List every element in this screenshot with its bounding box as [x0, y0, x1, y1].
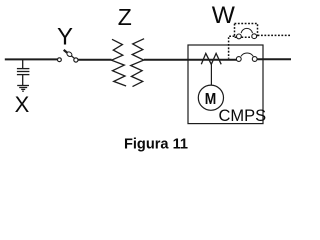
- relay device terminal 1: [237, 34, 242, 39]
- battery/source X : stub from wire: [22, 60, 24, 68]
- ground line 1: [17, 85, 29, 87]
- switch Y right terminal: [74, 58, 78, 62]
- ground line 2: [19, 87, 27, 89]
- relay contact arc: [241, 53, 253, 56]
- relay device terminal 2: [252, 34, 257, 39]
- battery X lower stub: [22, 75, 24, 86]
- motor circle M: [198, 85, 223, 110]
- transformer Z primary coil: [112, 39, 127, 86]
- wire from transformer secondary into box W to contact: [144, 59, 237, 61]
- battery X plate 1: [17, 68, 30, 70]
- relay contact terminal 2 on wire: [252, 57, 257, 62]
- ground line 4: [22, 90, 24, 92]
- svg-text:X: X: [15, 92, 30, 117]
- ground line 3: [21, 88, 25, 90]
- wire from protector valley down to motor: [210, 64, 212, 85]
- overload protector zigzag inside W: [201, 53, 221, 64]
- wire from switch to transformer primary: [78, 59, 112, 61]
- svg-text:CMPS: CMPS: [218, 107, 266, 125]
- relay contact terminal 1 on wire: [236, 57, 241, 62]
- wire from left edge to switch terminal: [5, 58, 58, 60]
- battery X plate 2: [17, 71, 30, 73]
- box W outline: [188, 45, 263, 124]
- dashed connector left-down to wire: [229, 36, 235, 58]
- battery X plate 3: [17, 74, 30, 76]
- svg-text:Y: Y: [57, 24, 73, 51]
- svg-text:M: M: [205, 91, 217, 108]
- relay device arc: [241, 28, 252, 33]
- switch Y left terminal: [58, 58, 62, 62]
- switch Y lever tip: [64, 50, 67, 53]
- svg-text:Z: Z: [118, 4, 132, 30]
- switch Y lever lower line: [72, 56, 75, 59]
- svg-text:W: W: [212, 2, 236, 29]
- relay coil dashed box: [235, 24, 258, 38]
- transformer Z secondary coil: [131, 39, 144, 87]
- svg-text:Figura 11: Figura 11: [124, 136, 188, 152]
- wire from contact to right end: [257, 58, 291, 60]
- switch Y lever open head: [66, 51, 73, 57]
- dashed connector to the right: [258, 34, 290, 36]
